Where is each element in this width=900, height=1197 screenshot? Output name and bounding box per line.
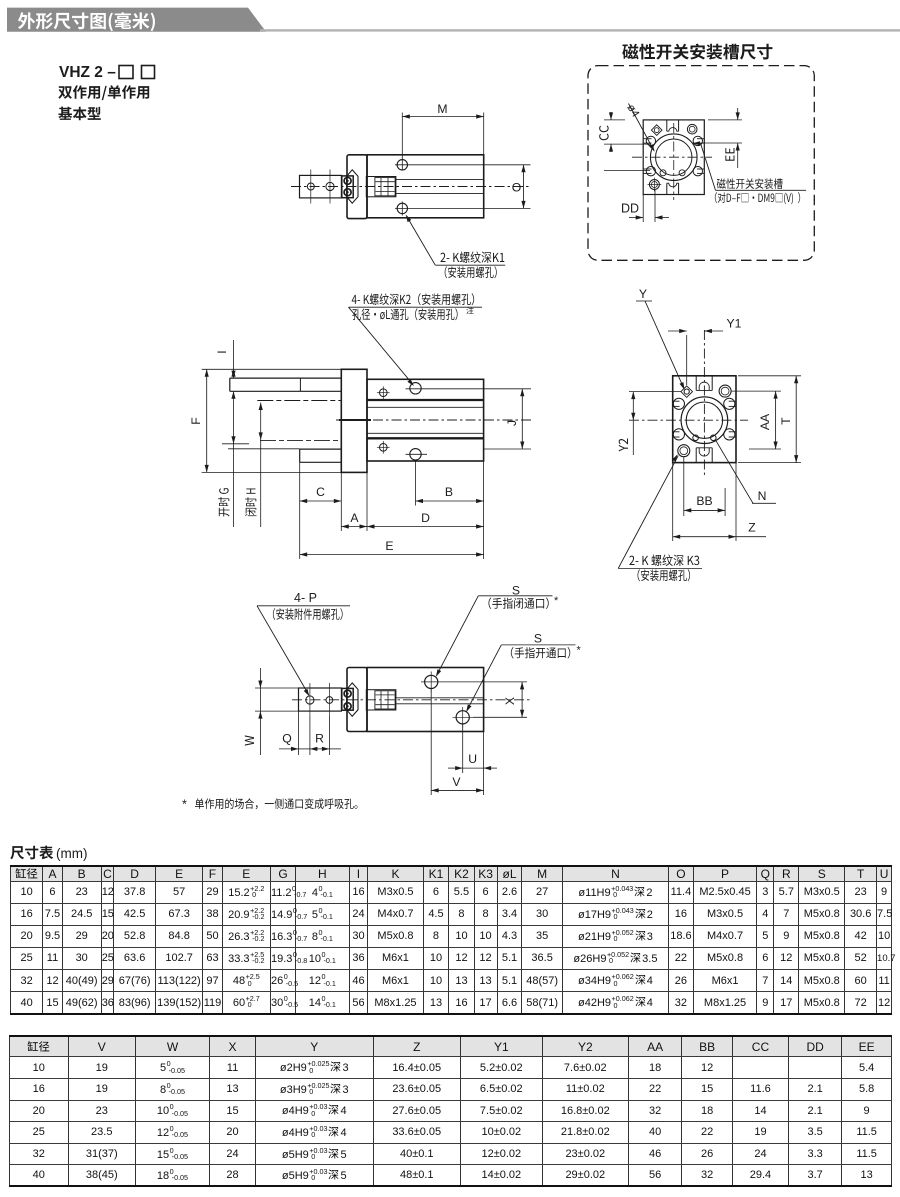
magnetic switch groove box bbox=[622, 44, 772, 60]
svg-text:N: N bbox=[758, 489, 767, 503]
svg-text:U: U bbox=[468, 752, 477, 766]
svg-text:Y: Y bbox=[639, 287, 647, 301]
svg-text:E: E bbox=[385, 539, 393, 553]
svg-text:*: * bbox=[554, 595, 559, 607]
svg-text:J: J bbox=[505, 420, 519, 426]
svg-text:S: S bbox=[534, 632, 542, 646]
svg-text:Y1: Y1 bbox=[727, 317, 742, 331]
svg-text:Q: Q bbox=[282, 732, 291, 746]
svg-text:*: * bbox=[577, 645, 582, 657]
svg-text:DD: DD bbox=[621, 202, 639, 216]
svg-text:X: X bbox=[503, 697, 517, 705]
svg-text:BB: BB bbox=[696, 494, 712, 508]
svg-text:V: V bbox=[452, 775, 461, 789]
svg-text:D: D bbox=[421, 511, 430, 525]
svg-text:O: O bbox=[512, 181, 521, 195]
svg-text:R: R bbox=[315, 732, 324, 746]
svg-text:B: B bbox=[445, 485, 453, 499]
svg-text:M: M bbox=[437, 102, 447, 116]
drawing 3: end view bbox=[673, 376, 736, 463]
svg-text:(mm): (mm) bbox=[56, 846, 87, 861]
svg-text:Z: Z bbox=[748, 521, 756, 535]
svg-text:AA: AA bbox=[758, 413, 772, 430]
svg-text:T: T bbox=[779, 417, 793, 425]
svg-text:A: A bbox=[350, 511, 359, 525]
svg-text:VHZ 2 –: VHZ 2 – bbox=[59, 64, 116, 81]
drawing 4: bottom side view bbox=[292, 699, 531, 701]
svg-text:C: C bbox=[316, 485, 325, 499]
svg-text:4- P: 4- P bbox=[294, 591, 317, 605]
svg-text:*: * bbox=[182, 798, 187, 812]
drawing 1: top view bbox=[291, 186, 531, 188]
svg-text:F: F bbox=[189, 417, 203, 424]
svg-text:I: I bbox=[215, 350, 229, 353]
header bar bbox=[7, 8, 266, 32]
drawing 2: front view bbox=[352, 293, 474, 305]
svg-text:ø4: ø4 bbox=[624, 102, 641, 119]
